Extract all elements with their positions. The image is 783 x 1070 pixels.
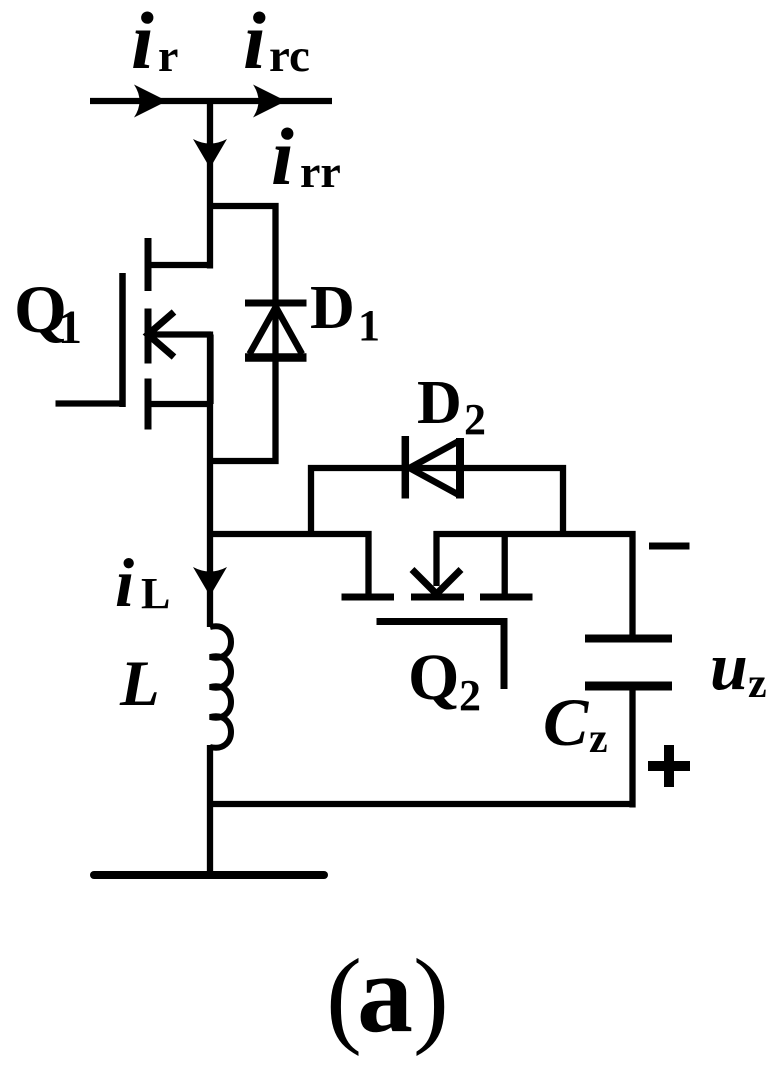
svg-text:rr: rr (300, 146, 341, 197)
svg-text:i: i (243, 0, 266, 86)
svg-text:r: r (158, 30, 178, 81)
wire: main vertical from body/source down to inductor (207, 332, 213, 628)
svg-text:D: D (310, 274, 355, 342)
transistor Q1 body arrow (open) (148, 312, 174, 357)
svg-text:C: C (543, 684, 589, 760)
transistor Q2 channel contact bars (342, 594, 533, 601)
arrow i_r (filled) (134, 85, 167, 118)
diode D2 cathode bar (402, 436, 410, 499)
wire: Q2 body arrow shaft (433, 531, 439, 586)
svg-text:2: 2 (459, 671, 481, 720)
arrow i_rr (filled, down) (193, 139, 227, 168)
svg-text:rc: rc (269, 30, 310, 82)
diode D2 triangle sides (410, 441, 460, 495)
capacitor Cz bottom plate (585, 682, 672, 691)
wire: D2 left branch, top wire through diode, right branch (311, 468, 563, 537)
capacitor Cz top plate (585, 635, 672, 643)
svg-text:u: u (710, 628, 748, 704)
wire: top horizontal input (90, 98, 332, 104)
ground (94, 871, 324, 879)
transistor Q2 body arrow (open, down) (412, 570, 461, 595)
wire: Q1 drain lead (148, 262, 213, 268)
diode D1 cathode bar (245, 300, 307, 307)
svg-text:z: z (748, 661, 767, 707)
svg-text:1: 1 (58, 301, 82, 354)
transistor Q1 channel contact bars (145, 238, 152, 430)
transistor Q1 gate bar (119, 273, 126, 407)
svg-text:a: a (357, 932, 413, 1056)
diode D1 triangle sides (250, 307, 303, 354)
wire: Q1 body lead (148, 331, 211, 337)
plus sign of uz (648, 745, 690, 787)
arrow i_rc (filled) (253, 85, 286, 118)
wire: left bus segment with Q2 drain lead (210, 534, 369, 595)
wire: main vertical drain lead (207, 98, 213, 269)
svg-text:i: i (115, 545, 134, 621)
wire: right bus segment with capacitor lead corner (434, 534, 633, 639)
svg-text:2: 2 (464, 395, 486, 444)
wire: vertical below inductor to ground (207, 745, 213, 875)
diode D1 anode bar (245, 353, 307, 362)
transistor Q2 gate bar and gate lead (377, 622, 505, 690)
svg-text:D: D (417, 369, 462, 437)
wire: Q1 source lead (148, 401, 213, 407)
diode D2 anode bar (456, 438, 464, 499)
svg-text:z: z (589, 716, 608, 762)
arrow i_L (filled, down) (193, 567, 227, 596)
wire: capacitor bottom lead (629, 686, 635, 808)
svg-text:i: i (271, 111, 294, 202)
svg-text:L: L (141, 569, 170, 618)
svg-text:1: 1 (358, 301, 380, 350)
inductor L coils (210, 626, 231, 748)
wire: Q1 gate lead (56, 400, 123, 406)
minus sign of uz (649, 543, 690, 550)
svg-text:): ) (413, 938, 449, 1057)
wire: jog to D1, through diode, back to source node (208, 206, 276, 461)
wire: bottom return wire (210, 801, 633, 807)
transistor Q1 body-source tie (207, 335, 213, 405)
wire: Q2 source lead (502, 531, 508, 595)
svg-text:i: i (131, 0, 154, 86)
svg-text:L: L (119, 648, 160, 720)
svg-text:Q: Q (408, 641, 459, 714)
